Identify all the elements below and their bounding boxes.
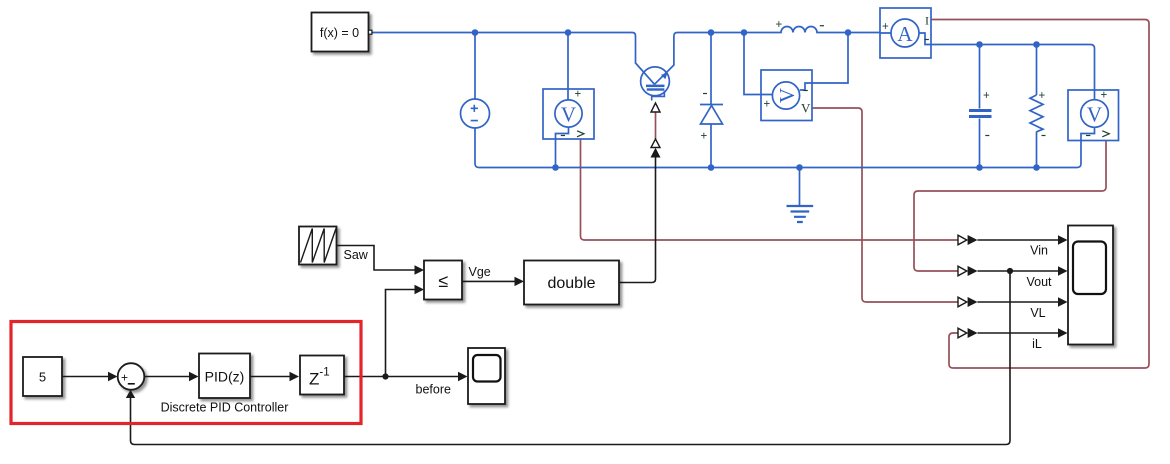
junction PID output branch [382, 373, 388, 379]
wire PS Vout sensor output to scope (dark red) [914, 141, 1106, 272]
svg-text:+: + [983, 90, 990, 102]
wire constant to sum [62, 372, 118, 381]
inductor polarity labels [776, 19, 825, 31]
junction top bus at V1 [565, 29, 572, 36]
svg-text:Discrete PID Controller: Discrete PID Controller [161, 401, 289, 415]
svg-text:PID(z): PID(z) [205, 369, 245, 385]
svg-text:double: double [547, 275, 595, 292]
svg-text:iL: iL [1032, 337, 1042, 351]
wire relational operator to double [462, 277, 524, 286]
wire resistor top [1036, 45, 1038, 96]
block relational operator <= [424, 261, 462, 300]
red highlight rectangle around PID subsystem [11, 322, 361, 424]
block constant 5 [23, 357, 62, 396]
wire capacitor bottom [979, 119, 981, 168]
junction bottom bus at capacitor [976, 164, 983, 171]
junction top bus at inductor right [845, 29, 852, 36]
junction top bus at DC source [472, 29, 479, 36]
svg-text:Vge: Vge [469, 265, 491, 279]
junction bottom bus at V1 [552, 164, 559, 171]
DC voltage source [461, 99, 490, 128]
wire voltmeter V1 negative leg [556, 127, 569, 168]
wire double block to IGBT gate (black) [619, 158, 656, 283]
junction ammeter wire at resistor [1033, 41, 1040, 48]
diode [700, 105, 723, 125]
scope input row Vout: conversion arrows and wire [958, 266, 1068, 276]
svg-text:+: + [764, 99, 771, 111]
wire voltmeter V1 positive [567, 33, 569, 101]
svg-text:+: + [121, 370, 128, 384]
label Vout [1026, 275, 1052, 289]
svg-text:5: 5 [39, 370, 46, 385]
block double (data type conversion) [524, 261, 619, 305]
label iL [1032, 337, 1042, 351]
svg-text:+: + [575, 89, 582, 101]
block scope before [468, 348, 505, 404]
svg-text:Saw: Saw [344, 248, 369, 262]
wire PS iL current sensor output to scope (dark red) [932, 20, 1150, 369]
block Saw (sawtooth generator) [299, 227, 337, 265]
wire VL voltmeter negative [800, 33, 848, 91]
svg-text:V: V [801, 101, 811, 116]
scope input row Vin: conversion arrows and wire [958, 235, 1068, 245]
capacitor [969, 90, 992, 136]
IGBT switch [641, 67, 670, 101]
wire sum to PID [144, 372, 198, 381]
wire VL voltmeter positive [744, 33, 773, 95]
voltmeter V1 (input voltage) [543, 89, 594, 140]
junction bottom bus at ground [796, 164, 803, 171]
label Vge [469, 265, 491, 279]
svg-text:+: + [701, 131, 708, 143]
wire diode anode [710, 124, 712, 168]
wire DC source top [474, 33, 476, 100]
wire top bus right: IGBT emitter to ammeter, with inductor [655, 27, 881, 85]
junction feedback tap on Vout [1007, 268, 1013, 274]
svg-text:before: before [416, 383, 451, 397]
label before [416, 383, 451, 397]
label Vin [1030, 244, 1048, 258]
wire PS Vin sensor output to scope (dark red) [581, 140, 959, 241]
svg-text:+: + [776, 19, 783, 31]
svg-text:V: V [1087, 103, 1102, 127]
resistor [1030, 90, 1046, 136]
wire ammeter output to V2 [931, 45, 1095, 100]
junction ammeter wire at capacitor [976, 41, 983, 48]
signal conversion marker at IGBT gate [651, 139, 661, 158]
wire unit delay to scope before [344, 372, 468, 381]
block PID(z) Discrete PID Controller [199, 354, 250, 399]
wire PS VL sensor output to scope (dark red) [812, 108, 958, 302]
wire PID output branch up to relational operator [386, 285, 425, 377]
block f(x)=0 solver [312, 13, 372, 52]
voltmeter V2 (output voltage) [1068, 90, 1119, 141]
wire PID to unit delay [250, 372, 299, 381]
svg-text:VL: VL [1030, 306, 1045, 320]
voltmeter VL (rotated, inductor voltage) [761, 70, 812, 121]
block scope (4 inputs) [1068, 226, 1113, 345]
feedback wire Vout to sum (black) [126, 271, 1010, 445]
wire top bus left: f(x)=0 to IGBT collector [372, 33, 655, 85]
scope input row VL: conversion arrows and wire [958, 297, 1068, 307]
svg-text:f(x) = 0: f(x) = 0 [320, 26, 359, 40]
wire Saw to relational operator [337, 246, 424, 275]
svg-text:I: I [925, 14, 929, 28]
ground (electrical reference) [787, 168, 814, 223]
scope input row iL: conversion arrows and wire [958, 328, 1068, 338]
svg-text:+: + [1101, 90, 1108, 102]
junction bottom bus at resistor [1033, 164, 1040, 171]
svg-text:V: V [561, 103, 576, 127]
diode polarity labels [701, 94, 708, 143]
ammeter A (inductor current) [880, 8, 931, 58]
block unit delay Z^-1 [300, 356, 344, 395]
wire resistor bottom [1036, 132, 1038, 168]
svg-text:Vin: Vin [1030, 244, 1048, 258]
label Discrete PID Controller [161, 401, 289, 415]
IGBT gate port marker [651, 103, 660, 112]
junction bottom bus at diode [708, 164, 715, 171]
svg-text:+: + [1039, 90, 1046, 102]
svg-text:≤: ≤ [438, 271, 448, 291]
label VL [1030, 306, 1045, 320]
wire capacitor top [979, 45, 981, 109]
label Saw [344, 248, 369, 262]
wire PS gate signal (dark red) [655, 112, 657, 139]
svg-text:+: + [882, 21, 889, 33]
wire diode cathode [710, 33, 712, 105]
junction top bus at diode [708, 29, 715, 36]
svg-text:V: V [775, 88, 799, 103]
wire bottom bus: DC source negative to output, V2 negative leg [475, 127, 1095, 167]
svg-text:Vout: Vout [1026, 275, 1052, 289]
sum block (+-) [118, 363, 145, 390]
svg-text:A: A [897, 22, 913, 46]
junction top bus at inductor left [741, 29, 748, 36]
